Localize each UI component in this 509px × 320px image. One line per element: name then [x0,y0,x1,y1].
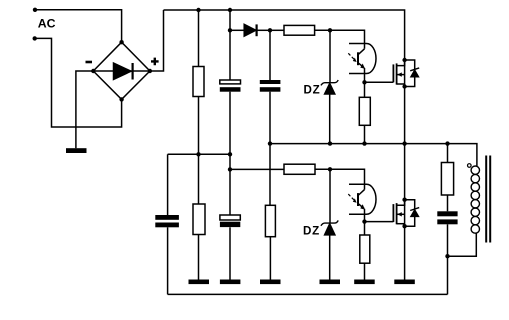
capacitor C2 [260,80,281,92]
node Q1 drain [402,58,406,62]
wire R6 bottom lead [364,125,366,143]
pad R4 [260,280,281,285]
wire R6 top lead [364,82,366,97]
wire top DC rail [164,10,405,60]
ground [66,148,87,153]
mosfet Q1 [393,60,404,87]
wire DZ2 bottom lead [329,235,331,280]
bridge rectifier diamond [93,42,150,99]
pad R7 [354,280,375,285]
wire R1 column bottom [198,97,200,155]
svg-text:DZ: DZ [304,84,321,97]
wire bridge minus to ground [76,71,93,148]
wire PT1 emitter to Q1 gate [365,81,394,83]
pad DZ2 [320,280,341,285]
node D1 cathode / C2 junction [268,28,272,32]
transformer T1 polarity dot [468,164,472,168]
wire C2 column bottom [269,92,271,144]
node feed2 corner [228,167,232,171]
wire C1 column top [229,10,231,80]
wire R4 column [269,144,271,206]
wire snubber top lead [447,144,449,163]
wire output rail [270,144,477,166]
wire DZ1 bottom lead [329,94,331,144]
pad C3 [220,280,241,285]
node output rail Q1 source column [402,141,406,145]
node output rail DZ1 column [328,141,332,145]
wire R2 to PT1 collector corner [315,30,365,49]
wire R7 bottom lead [364,263,366,279]
node bridge top vertex [119,40,123,44]
node output rail R6 column [362,141,366,145]
wire C4 to bottom rail [447,224,449,294]
transformer T1 winding [471,166,479,233]
body diode Q1 [410,68,419,77]
wire C2 column top [269,30,271,80]
capacitor C4 [437,211,457,224]
wire C3 column [229,154,231,215]
wire left column to C5 [167,154,169,215]
node snubber output junction [445,254,449,258]
node DZ2 junction [328,167,332,171]
wire C3 to pad [229,227,231,279]
node output rail snubber column [445,141,449,145]
diode D1 [230,24,270,36]
resistor R8 [441,163,453,196]
node bridge left vertex [91,69,95,73]
capacitor C3 [220,215,240,227]
wire bridge plus to top rail [150,10,164,71]
wire R1 column top [198,10,200,67]
wire Q1 body branch [405,60,415,87]
wire R3 top lead [198,154,200,204]
zener diode DZ1 [321,80,338,94]
wire Q2 body branch [405,200,415,227]
svg-text:AC: AC [38,17,56,31]
node DZ1 junction [328,28,332,32]
wire R4 bottom lead [269,237,271,280]
node bridge bottom vertex [119,97,123,101]
resistor R6 [359,97,370,125]
wire feed2 to R5 [230,168,284,170]
node lower rail C3 junction [228,152,232,156]
transformer T1 core [486,156,490,243]
wire bottom rail [168,293,448,295]
resistor R7 [360,235,370,263]
mosfet Q2 [393,200,404,227]
node PT1 emitter [362,80,366,84]
node Q2 drain [402,198,406,202]
resistor R4 [265,205,275,236]
wire R5 to PT2 collector corner [315,169,365,189]
node output rail C2 column [268,141,272,145]
node lower rail R3 junction [196,152,200,156]
resistor R5 [284,164,315,174]
resistor R2 [284,25,315,35]
wire C5 to bottom rail [167,227,169,294]
wire C1 column bottom [229,92,231,155]
node top rail R1 junction [196,8,200,12]
wire PT2 emitter to Q2 gate [365,221,394,223]
capacitor C1 [220,80,241,92]
node PT2 emitter [362,219,366,223]
node top rail C1 junction [228,8,232,12]
node diode D1 tap [228,28,232,32]
wire Q2 drain from output rail [404,144,406,200]
wire R3 bottom lead [198,235,200,280]
opto transistor PT2 package [349,184,376,214]
svg-text:DZ: DZ [303,225,320,238]
wire lower DC rail [168,153,230,155]
pad Q2 [394,280,415,285]
node AC terminal 1 [33,8,37,12]
resistor R1 [193,67,204,97]
label plus [151,58,159,66]
wire R8 to C4 [447,195,449,211]
node Q1 source [402,84,406,88]
opto transistor PT1 package [349,44,376,74]
wire AC line 1 to bridge top [35,10,122,42]
wire AC line 2 to bridge bottom [35,38,122,127]
capacitor C5 [155,215,179,227]
wire Q1 source to output rail [404,87,406,144]
node Q2 source [402,224,406,228]
transistor PT1 [348,49,365,83]
wire Q2 source to pad [404,226,406,279]
transistor PT2 [348,190,365,222]
wire D1 to R2 [270,29,284,31]
pad R3 [189,280,210,285]
wire DZ1 top lead [329,30,331,82]
resistor R3 [193,204,205,235]
wire R7 top lead [364,222,366,235]
wire DZ2 top lead [329,169,331,223]
node bridge right vertex [148,69,152,73]
body diode Q2 [410,208,419,217]
zener diode DZ2 [321,220,338,235]
wire output to transformer bottom [448,233,477,256]
bridge internal diode [93,63,150,80]
label minus [86,61,93,64]
node AC terminal 2 [33,36,37,40]
